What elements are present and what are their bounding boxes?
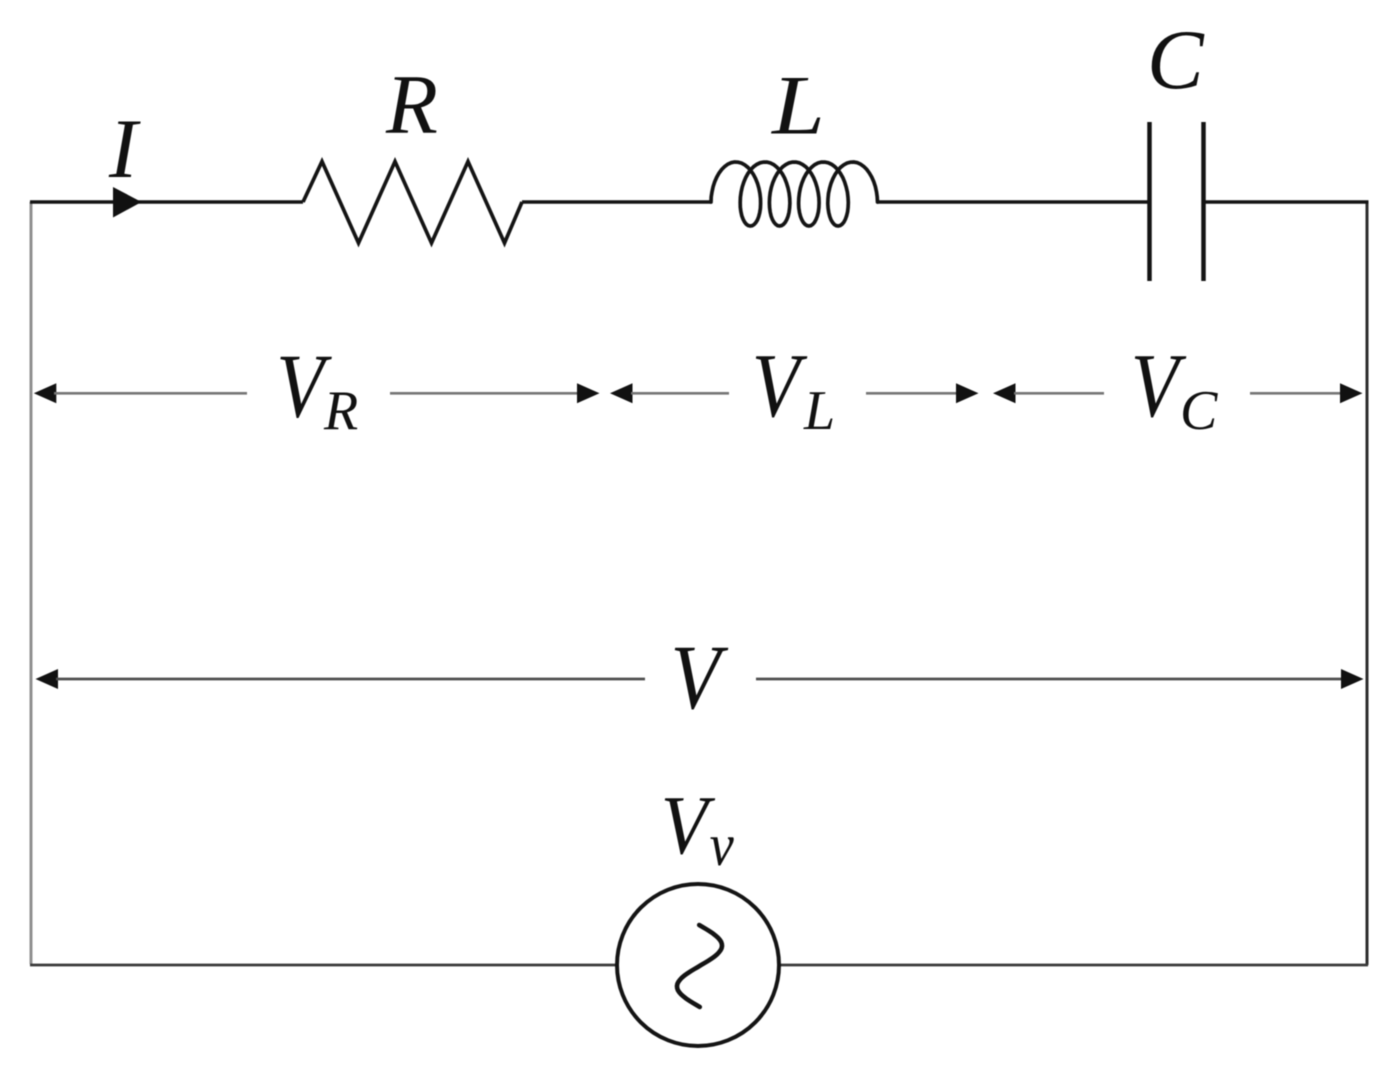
resistor R zigzag: [303, 162, 522, 244]
wire capacitor to right wall: [1206, 200, 1369, 203]
V arrow left line: [56, 678, 645, 681]
VR arrow right head: [577, 383, 600, 403]
VC arrow left line: [1014, 392, 1104, 395]
VL arrow right head: [956, 383, 979, 403]
VR arrow right line: [390, 392, 578, 395]
svg-text:C: C: [1180, 380, 1218, 442]
VR arrow left head: [34, 383, 57, 403]
inductor L coil: [711, 162, 878, 226]
V arrow right head: [1341, 669, 1364, 689]
source circle Vv: [617, 884, 779, 1046]
VR arrow left line: [54, 392, 247, 395]
svg-text:V: V: [671, 626, 729, 729]
svg-text:V: V: [752, 336, 808, 437]
wire left wall: [30, 202, 33, 964]
svg-text:L: L: [803, 380, 835, 442]
source sine wave: [677, 925, 722, 1007]
V arrow right line: [756, 678, 1342, 681]
VL arrow left head: [610, 383, 633, 403]
current arrow I head: [113, 187, 142, 218]
wire inductor to capacitor: [877, 200, 1148, 203]
wire bottom left segment: [30, 964, 618, 967]
VC arrow right head: [1340, 383, 1363, 403]
svg-text:V: V: [661, 779, 715, 872]
svg-text:L: L: [770, 59, 825, 153]
svg-text:C: C: [1147, 13, 1205, 107]
wire bottom right segment: [778, 964, 1368, 967]
V arrow left head: [36, 669, 59, 689]
svg-text:I: I: [108, 102, 141, 196]
svg-text:R: R: [385, 58, 438, 152]
svg-text:V: V: [1131, 336, 1187, 437]
wire right wall: [1366, 202, 1369, 965]
VC arrow right line: [1250, 392, 1341, 395]
VL arrow left line: [631, 392, 729, 395]
VC arrow left head: [993, 383, 1016, 403]
svg-text:R: R: [323, 380, 358, 442]
capacitor C left plate: [1147, 122, 1152, 281]
svg-text:v: v: [710, 813, 735, 879]
wire top middle segment resistor to inductor: [522, 200, 711, 203]
wire top left segment: [30, 200, 303, 203]
capacitor C right plate: [1201, 122, 1206, 281]
VL arrow right line: [866, 392, 957, 395]
